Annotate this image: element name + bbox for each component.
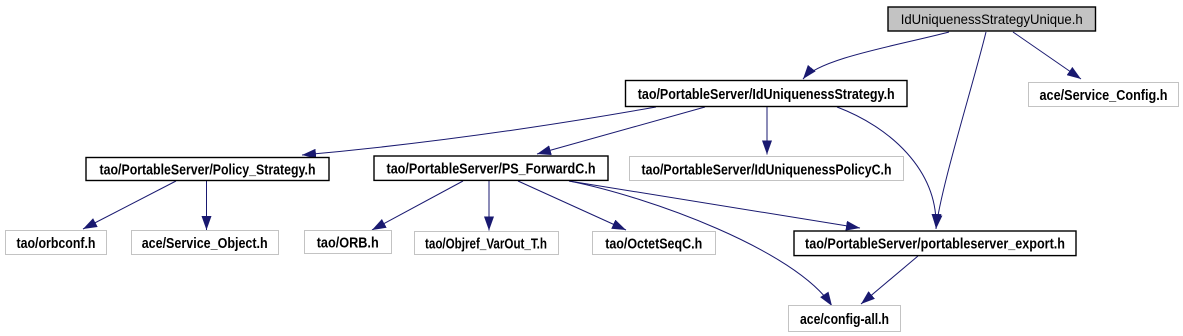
node tao/PortableServer/Policy_Strategy.h bbox=[86, 158, 329, 181]
node tao/PortableServer/portableserver_export.h bbox=[794, 231, 1076, 256]
edge Policy_Strategy.h -> orbconf.h bbox=[83, 181, 176, 229]
svg-text:tao/PortableServer/PS_ForwardC: tao/PortableServer/PS_ForwardC.h bbox=[387, 162, 596, 178]
svg-text:tao/OctetSeqC.h: tao/OctetSeqC.h bbox=[605, 236, 702, 252]
edge IdUniquenessStrategyUnique.h -> IdUniquenessStrategy.h bbox=[803, 32, 949, 79]
svg-text:ace/config-all.h: ace/config-all.h bbox=[800, 312, 889, 328]
edge PS_ForwardC.h -> ORB.h bbox=[372, 181, 463, 230]
edge IdUniquenessStrategy.h -> Policy_Strategy.h bbox=[302, 107, 656, 155]
svg-text:tao/Objref_VarOut_T.h: tao/Objref_VarOut_T.h bbox=[425, 236, 547, 252]
svg-text:tao/PortableServer/IdUniquenes: tao/PortableServer/IdUniquenessPolicyC.h bbox=[642, 162, 892, 178]
svg-text:tao/orbconf.h: tao/orbconf.h bbox=[17, 236, 96, 252]
svg-text:IdUniquenessStrategyUnique.h: IdUniquenessStrategyUnique.h bbox=[901, 11, 1083, 27]
svg-text:tao/ORB.h: tao/ORB.h bbox=[317, 236, 379, 252]
svg-text:tao/PortableServer/IdUniquenes: tao/PortableServer/IdUniquenessStrategy.… bbox=[638, 87, 895, 103]
svg-text:ace/Service_Object.h: ace/Service_Object.h bbox=[142, 236, 268, 252]
node tao/PortableServer/IdUniquenessPolicyC.h bbox=[630, 157, 904, 181]
edge Policy_Strategy.h -> Service_Object.h bbox=[206, 181, 208, 230]
edge IdUniquenessStrategyUnique.h -> portableserver_export.h bbox=[936, 32, 986, 229]
edge PS_ForwardC.h -> Objref_VarOut_T.h bbox=[488, 181, 490, 231]
node tao/Objref_VarOut_T.h bbox=[415, 232, 559, 255]
edge PS_ForwardC.h -> OctetSeqC.h bbox=[518, 181, 626, 230]
svg-text:ace/Service_Config.h: ace/Service_Config.h bbox=[1040, 88, 1168, 104]
node IdUniquenessStrategyUnique.h bbox=[888, 7, 1096, 31]
node tao/PortableServer/PS_ForwardC.h bbox=[374, 156, 608, 180]
edge PS_ForwardC.h -> config-all.h bbox=[569, 181, 832, 306]
edge IdUniquenessStrategyUnique.h -> Service_Config.h bbox=[1013, 32, 1081, 79]
edge IdUniquenessStrategy.h -> IdUniquenessPolicyC.h bbox=[766, 107, 768, 155]
edge IdUniquenessStrategy.h -> portableserver_export.h bbox=[837, 107, 936, 228]
node ace/Service_Config.h bbox=[1029, 83, 1179, 107]
node tao/ORB.h bbox=[305, 231, 392, 254]
svg-text:tao/PortableServer/portableser: tao/PortableServer/portableserver_export… bbox=[805, 237, 1065, 253]
edge PS_ForwardC.h -> portableserver_export.h bbox=[569, 181, 860, 228]
node tao/orbconf.h bbox=[6, 231, 107, 255]
node ace/Service_Object.h bbox=[132, 231, 279, 255]
edge portableserver_export.h -> config-all.h bbox=[861, 256, 918, 304]
node ace/config-all.h bbox=[789, 306, 901, 332]
edge IdUniquenessStrategy.h -> PS_ForwardC.h bbox=[537, 107, 705, 154]
node tao/PortableServer/IdUniquenessStrategy.h bbox=[626, 81, 908, 107]
svg-text:tao/PortableServer/Policy_Stra: tao/PortableServer/Policy_Strategy.h bbox=[100, 162, 316, 178]
node tao/OctetSeqC.h bbox=[593, 232, 716, 255]
